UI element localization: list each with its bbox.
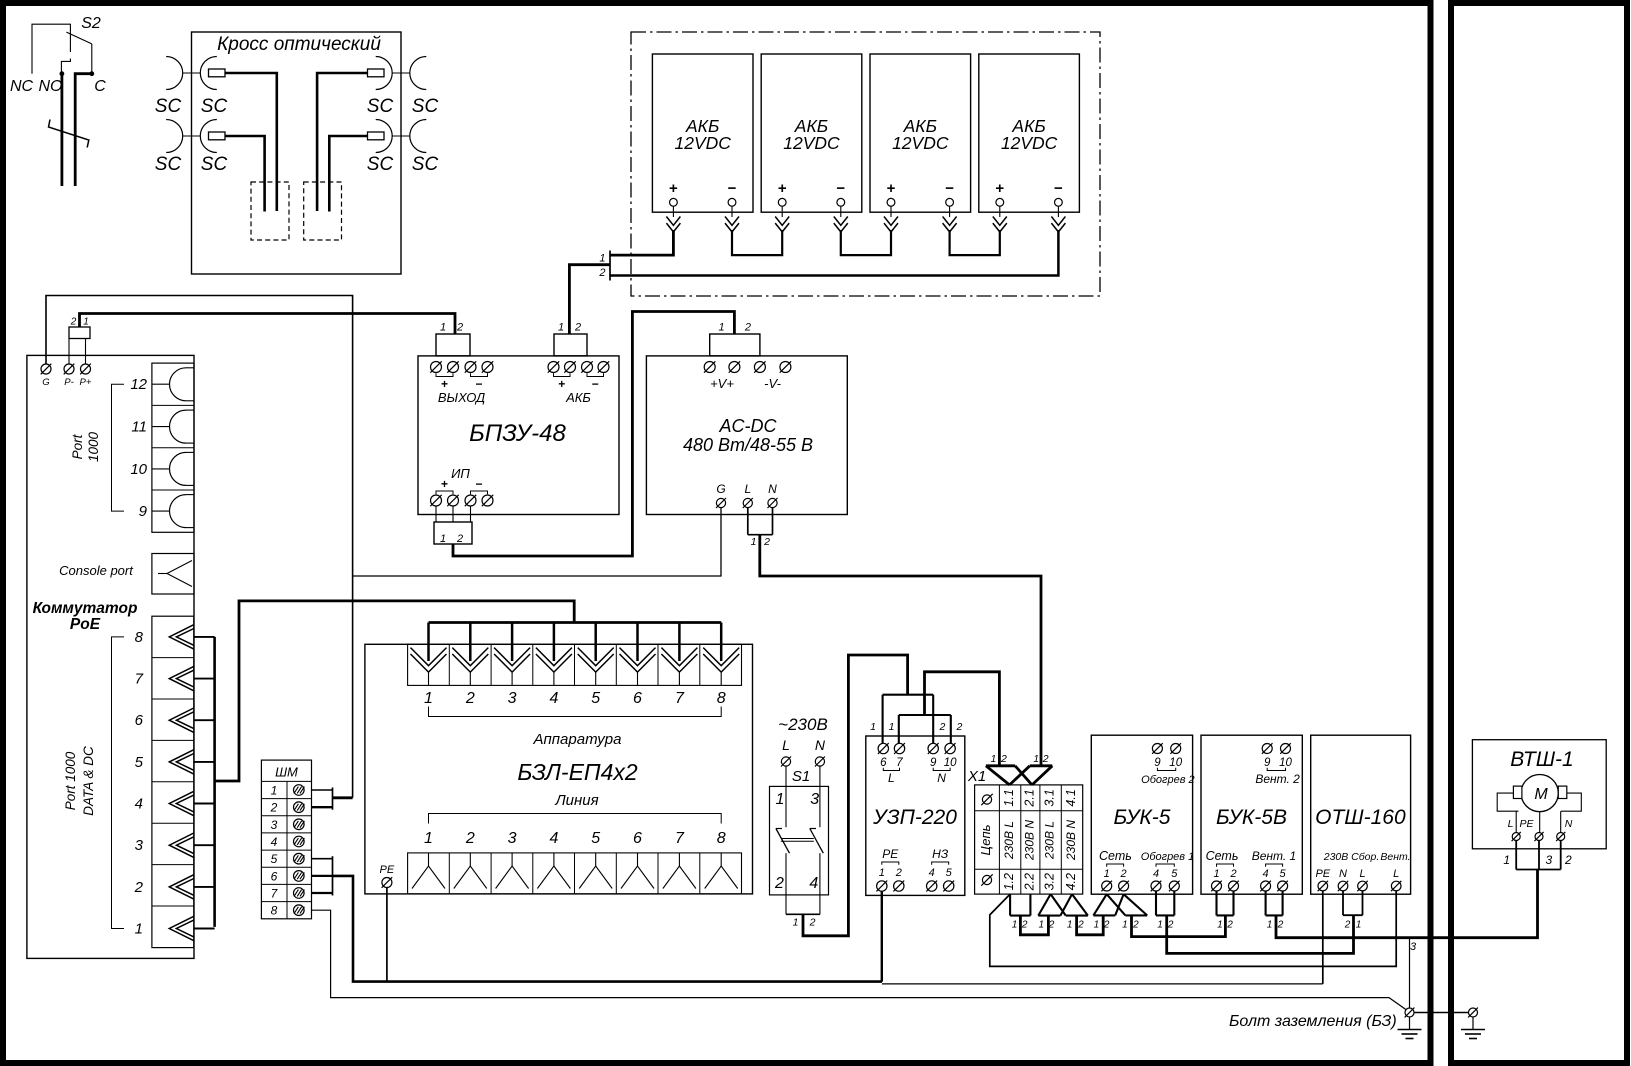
port 3 jack (data+DC)	[169, 833, 194, 857]
unit БУК-5 box	[1091, 735, 1192, 894]
cable БПЗУ ИП to AC-DC output	[453, 312, 734, 557]
svg-text:−: −	[945, 180, 954, 197]
port 2 jack (data+DC)	[169, 875, 194, 899]
svg-text:N: N	[815, 737, 826, 753]
svg-text:3: 3	[508, 690, 517, 707]
svg-text:230В L: 230В L	[1043, 821, 1057, 860]
port 5 jack (data+DC)	[169, 750, 194, 774]
connector PoE power (pins 2 1)	[69, 327, 90, 339]
series link GB3- to GB4+	[950, 230, 1000, 255]
wire N into S1	[819, 766, 821, 827]
БЗЛ Линия jack 7	[678, 853, 680, 866]
wire ШМ-2 to connector	[312, 806, 333, 808]
svg-text:480 Вт/48-55 В: 480 Вт/48-55 В	[683, 435, 813, 455]
svg-text:1: 1	[271, 784, 278, 798]
БЗЛ Линия jack 2	[469, 853, 471, 866]
svg-text:1: 1	[1033, 753, 1039, 765]
svg-text:2: 2	[763, 536, 770, 548]
БЗЛ Аппаратура jack 7	[661, 648, 697, 666]
БПЗУ ИП terminals	[431, 495, 442, 506]
svg-text:3: 3	[271, 818, 278, 832]
svg-text:1: 1	[424, 690, 433, 707]
switch S2 contact outline	[32, 24, 70, 73]
svg-text:Сеть: Сеть	[1206, 849, 1239, 863]
svg-text:БУК-5: БУК-5	[1114, 806, 1171, 829]
svg-text:G: G	[716, 482, 725, 496]
svg-text:2: 2	[774, 875, 784, 892]
svg-text:8: 8	[271, 904, 278, 918]
svg-text:NO: NO	[39, 78, 63, 95]
БЗЛ bottom strip (Линия)	[408, 853, 742, 894]
port 10 jack	[170, 452, 186, 485]
svg-text:Кросс оптический: Кросс оптический	[217, 34, 381, 55]
wire X1 1.2 to ОТШ Вент L	[990, 889, 1396, 967]
svg-text:9: 9	[139, 503, 148, 520]
svg-text:1: 1	[1104, 868, 1110, 880]
svg-text:SC: SC	[412, 154, 439, 175]
svg-text:L: L	[744, 482, 751, 496]
svg-text:−: −	[836, 180, 845, 197]
SC adapter coupling line	[392, 72, 410, 74]
svg-text:2: 2	[1042, 753, 1049, 765]
cable БУК-5 Сеть to БУК-5В Сеть	[1132, 915, 1226, 936]
БУК-5 terminals 9 10 (Обогрев 2)	[1152, 744, 1162, 754]
БЗЛ Аппаратура jack 6	[620, 648, 656, 666]
svg-text:Port: Port	[70, 433, 85, 459]
УЗП input fan (pins 1-2 from S1)	[883, 694, 934, 696]
svg-text:2: 2	[1564, 853, 1572, 867]
battery bank enclosure (dash-dot)	[631, 32, 1100, 296]
series link GB2- to GB3+	[841, 230, 891, 255]
svg-text:SC: SC	[201, 154, 228, 175]
svg-text:Вент.: Вент.	[1380, 851, 1410, 863]
svg-text:1: 1	[1012, 920, 1018, 931]
connector ВТШ-1 (pins 1 3 2)	[1515, 841, 1517, 870]
svg-text:2: 2	[744, 322, 751, 334]
unit ВТШ-1 box	[1472, 740, 1606, 849]
svg-text:+: +	[441, 377, 448, 391]
bonding link bolt to panel earth	[1414, 1012, 1469, 1014]
cable AC-DC mains input from X1	[760, 535, 1041, 766]
svg-text:6: 6	[271, 869, 278, 883]
svg-text:Линия: Линия	[554, 792, 598, 809]
bracket ports 1-8	[112, 637, 125, 929]
svg-text:1: 1	[135, 921, 143, 938]
PoE terminals G P- P+	[41, 364, 51, 374]
cable S1 to УЗП-220	[803, 655, 908, 936]
svg-text:X1: X1	[967, 768, 986, 785]
svg-text:4: 4	[549, 690, 558, 707]
wire L into S1	[785, 766, 787, 827]
svg-text:1: 1	[1039, 920, 1045, 931]
svg-text:12: 12	[130, 376, 147, 393]
fiber from SC row1-right to splice box 2	[317, 73, 367, 211]
svg-text:7: 7	[896, 757, 903, 769]
svg-text:10: 10	[1169, 757, 1182, 769]
svg-text:4: 4	[1153, 868, 1159, 880]
svg-text:~230В: ~230В	[778, 715, 828, 734]
svg-text:1: 1	[1157, 920, 1163, 931]
svg-text:6: 6	[633, 830, 642, 847]
svg-text:−: −	[592, 377, 599, 391]
SC adapter inner arc	[200, 57, 216, 90]
svg-text:12VDC: 12VDC	[892, 133, 949, 153]
connector X1 1.2/2.2 (pins 1 2)	[1009, 894, 1011, 916]
svg-text:DATA & DC: DATA & DC	[81, 746, 96, 816]
right panel frame	[1451, 3, 1627, 1063]
svg-text:1: 1	[1356, 920, 1362, 931]
svg-text:3.1: 3.1	[1043, 789, 1057, 806]
switch S2 blade	[66, 32, 91, 44]
svg-text:3.2: 3.2	[1043, 873, 1057, 890]
svg-text:+: +	[887, 180, 896, 197]
wire ШМ-6 to PE bar	[312, 875, 333, 877]
svg-text:1: 1	[776, 791, 785, 808]
SC adapter inner arc	[376, 120, 393, 153]
PoE port collector wire	[213, 637, 216, 927]
wire ШМ-1 to connector	[312, 789, 333, 791]
БЗЛ Аппаратура jack 2	[452, 648, 488, 666]
wire PoE G to ground net	[46, 296, 353, 798]
panel earth terminal	[1469, 1008, 1478, 1017]
wire ШМ-7 to PE bar	[312, 892, 333, 894]
svg-text:S1: S1	[792, 768, 810, 785]
Console port box	[152, 554, 194, 595]
svg-text:4.1: 4.1	[1064, 789, 1078, 806]
connector БУК-5 Обогрев1 (pins 1 2)	[1155, 891, 1157, 915]
optical cross box (Кросс оптический)	[192, 32, 402, 274]
svg-text:1: 1	[870, 721, 876, 733]
svg-text:1: 1	[793, 917, 799, 929]
connector S1 output (pins 1 2)	[786, 913, 820, 915]
PE bus from ШМ	[333, 876, 883, 982]
svg-text:2: 2	[1229, 868, 1236, 880]
svg-text:БЗЛ-ЕП4х2: БЗЛ-ЕП4х2	[517, 759, 638, 785]
svg-text:AC-DC: AC-DC	[719, 416, 778, 436]
svg-text:1: 1	[990, 753, 996, 765]
svg-text:P-: P-	[64, 377, 74, 388]
svg-text:1.1: 1.1	[1002, 789, 1016, 806]
connector ОТШ 230В Сбор (pins 2 1)	[1342, 891, 1344, 915]
svg-text:P+: P+	[80, 377, 92, 388]
svg-text:9: 9	[1264, 757, 1271, 769]
svg-text:1: 1	[879, 867, 885, 879]
svg-text:УЗП-220: УЗП-220	[872, 806, 957, 829]
port 7 jack (data+DC)	[169, 666, 194, 690]
cable УЗП to X1 (230V L)	[925, 672, 1000, 766]
wire ШМ-8 to earth bolt	[312, 910, 1407, 1010]
svg-text:1: 1	[83, 317, 89, 328]
svg-text:3: 3	[135, 837, 144, 854]
PE bus thin continuation to ОТШ	[882, 983, 1323, 985]
svg-text:4: 4	[549, 830, 558, 847]
svg-text:2: 2	[134, 879, 144, 896]
ВТШ-1 fan motor M	[1521, 775, 1558, 812]
breaker S1 box	[770, 786, 829, 895]
svg-text:7: 7	[675, 830, 685, 847]
unit БПЗУ-48 box	[418, 356, 619, 515]
svg-text:8: 8	[717, 830, 726, 847]
svg-text:2: 2	[1103, 920, 1110, 931]
svg-text:−: −	[728, 180, 737, 197]
battery GB1 (АКБ 12VDC)	[652, 54, 753, 212]
svg-text:SC: SC	[367, 96, 394, 117]
БЗЛ Аппаратура jack 3	[494, 648, 530, 666]
svg-text:Обогрев 1: Обогрев 1	[1141, 851, 1194, 863]
svg-text:БПЗУ-48: БПЗУ-48	[469, 420, 566, 447]
wire AC-DC G to ground net	[353, 508, 721, 576]
svg-text:2: 2	[456, 322, 463, 334]
wire БЗЛ PE to PE bus	[386, 888, 388, 982]
svg-text:2: 2	[1277, 920, 1284, 931]
splice cassette 2 (dashed)	[304, 182, 342, 240]
svg-text:ВТШ-1: ВТШ-1	[1510, 748, 1573, 771]
БПЗУ ВЫХОД terminals	[431, 362, 442, 373]
svg-text:C: C	[94, 78, 106, 95]
svg-text:Коммутатор: Коммутатор	[33, 600, 138, 617]
bracket Аппаратура	[429, 707, 722, 717]
svg-text:N: N	[937, 771, 946, 785]
PoE uplink ports 12-9 strip	[152, 363, 194, 532]
svg-text:5: 5	[271, 852, 278, 866]
svg-text:G: G	[42, 377, 49, 388]
svg-text:Вент. 2: Вент. 2	[1255, 772, 1300, 786]
svg-text:1: 1	[1503, 853, 1510, 867]
svg-text:1: 1	[424, 830, 433, 847]
SC adapter coupling line	[183, 135, 201, 137]
svg-text:Цепь: Цепь	[978, 824, 993, 855]
connector AC-DC DC-output (pins 1 2)	[710, 334, 760, 356]
wire ШМ-5 to PE bar	[312, 858, 333, 860]
svg-text:1: 1	[889, 721, 895, 733]
svg-text:8: 8	[135, 629, 144, 646]
wire battery positive (pin 1) to connector	[610, 230, 673, 255]
splice cassette 1 (dashed)	[251, 182, 289, 240]
svg-text:2: 2	[1077, 920, 1084, 931]
svg-text:2: 2	[270, 801, 278, 815]
УЗП output fan (pins 1-2 to X1)	[899, 714, 951, 716]
port 4 jack (data+DC)	[169, 791, 194, 815]
svg-text:4: 4	[271, 835, 278, 849]
connector БУК-5В Сеть (pins 1 2)	[1215, 891, 1217, 915]
connector ИП (pins 1 2)	[434, 522, 472, 544]
БПЗУ АКБ terminals	[548, 362, 559, 373]
svg-text:1000: 1000	[86, 431, 101, 462]
svg-text:1: 1	[599, 253, 605, 265]
bracket Линия	[429, 814, 722, 824]
БЗЛ Линия jack 1	[428, 853, 430, 866]
svg-text:3: 3	[1546, 853, 1553, 867]
cable БПЗУ ВЫХОД to PoE switch power	[80, 314, 456, 335]
БЗЛ top connector strip (Аппаратура)	[408, 644, 742, 685]
БЗЛ Линия jack 4	[553, 853, 555, 866]
battery GB4 (АКБ 12VDC)	[979, 54, 1080, 212]
svg-text:4: 4	[135, 796, 143, 813]
SC ferrule	[209, 69, 226, 77]
breaker S1 pole 2 blade	[810, 828, 816, 830]
svg-text:SC: SC	[367, 154, 394, 175]
svg-text:8: 8	[717, 690, 726, 707]
svg-text:НЗ: НЗ	[932, 847, 949, 861]
SC adapter coupling line	[183, 72, 201, 74]
svg-text:1: 1	[719, 322, 725, 334]
SC adapter outer arc	[166, 120, 183, 153]
svg-text:АКБ: АКБ	[565, 390, 591, 405]
svg-text:5: 5	[591, 690, 600, 707]
svg-text:9: 9	[930, 757, 937, 769]
port 11 jack	[170, 410, 186, 443]
SC adapter outer arc	[410, 120, 427, 153]
unit ОТШ-160 box	[1311, 735, 1411, 894]
svg-text:2.2: 2.2	[1022, 873, 1036, 891]
БУК-5В terminals 9 10 (Вент. 2)	[1262, 744, 1272, 754]
node C of S2	[89, 71, 94, 76]
unit БУК-5В box	[1201, 735, 1302, 894]
svg-text:5: 5	[591, 830, 600, 847]
svg-text:6: 6	[633, 690, 642, 707]
svg-text:NC: NC	[10, 78, 34, 95]
БЗЛ Аппаратура jack 5	[578, 648, 614, 666]
svg-text:1: 1	[1122, 920, 1128, 931]
svg-text:+V+: +V+	[710, 376, 734, 391]
svg-text:-V-: -V-	[764, 376, 782, 391]
cable ШМ 1-2 to ground net	[333, 796, 353, 799]
svg-text:1: 1	[440, 322, 446, 334]
svg-text:10: 10	[944, 757, 957, 769]
AC-DC +V+ / -V- terminals	[704, 362, 715, 373]
svg-text:12VDC: 12VDC	[1001, 133, 1058, 153]
svg-text:ОТШ-160: ОТШ-160	[1315, 806, 1406, 829]
svg-text:Аппаратура: Аппаратура	[533, 731, 622, 748]
svg-text:2: 2	[598, 267, 605, 279]
svg-text:4: 4	[929, 867, 935, 879]
fiber from SC row2-right to splice box 2	[329, 136, 367, 212]
SC adapter coupling line	[392, 135, 410, 137]
cable БУК-5В Вент.1 to ВТШ-1	[1276, 870, 1538, 938]
svg-text:2: 2	[465, 690, 475, 707]
svg-text:L: L	[782, 737, 790, 753]
svg-text:+: +	[441, 477, 448, 491]
svg-text:Console port: Console port	[59, 563, 134, 578]
cable X1 1.2/2.2 to X1 3.2 fan	[1020, 916, 1048, 935]
cable X1 4.2 fan to БУК-5 Сеть fan	[1077, 915, 1104, 934]
svg-text:2: 2	[1226, 920, 1233, 931]
fan X1 3.2/4.2 crossover	[1038, 915, 1060, 917]
svg-text:2: 2	[70, 317, 77, 328]
SC adapter inner arc	[200, 120, 216, 153]
wire ОТШ PE to PE bus	[1322, 891, 1324, 984]
svg-text:5: 5	[1171, 868, 1178, 880]
svg-text:3: 3	[810, 791, 819, 808]
svg-text:10: 10	[1279, 757, 1292, 769]
fiber from SC row1-left to splice box 1	[225, 73, 277, 211]
svg-text:−: −	[475, 477, 482, 491]
svg-text:1: 1	[1217, 920, 1223, 931]
БЗЛ Линия jack 5	[595, 853, 597, 866]
svg-text:N: N	[768, 482, 777, 496]
svg-text:2.1: 2.1	[1022, 789, 1036, 807]
SC ferrule	[209, 132, 226, 140]
wire from S2 NO down	[61, 74, 64, 186]
svg-text:230В L: 230В L	[1002, 821, 1016, 860]
svg-text:1: 1	[558, 322, 564, 334]
svg-text:L: L	[1508, 818, 1514, 830]
svg-text:230В N: 230В N	[1022, 820, 1036, 861]
port 1 jack (data+DC)	[169, 916, 194, 940]
wire from S2 C down	[75, 74, 92, 186]
svg-text:2: 2	[456, 533, 463, 545]
port 9 jack	[170, 495, 186, 528]
svg-text:2: 2	[939, 721, 946, 733]
svg-text:PoE: PoE	[70, 616, 101, 633]
ШМ 1-2 cable connector bar	[332, 788, 334, 810]
earth bolt (Болт заземления)	[1405, 1008, 1414, 1017]
SC adapter inner arc	[376, 57, 393, 90]
svg-text:2: 2	[895, 867, 902, 879]
svg-text:ВЫХОД: ВЫХОД	[438, 390, 485, 405]
fan БУК-5 Сеть crossover	[1093, 914, 1115, 916]
svg-text:−: −	[475, 377, 482, 391]
breaker S1 mechanical link	[781, 838, 814, 840]
SC ferrule	[368, 69, 385, 77]
svg-text:+: +	[778, 180, 787, 197]
svg-text:2: 2	[1120, 868, 1127, 880]
svg-text:PE: PE	[882, 847, 899, 861]
svg-text:230В Сбор.: 230В Сбор.	[1323, 851, 1380, 863]
svg-text:11: 11	[131, 419, 147, 436]
svg-text:5: 5	[946, 867, 953, 879]
svg-text:N: N	[1339, 868, 1347, 880]
svg-text:SC: SC	[155, 96, 182, 117]
SC adapter outer arc	[410, 57, 427, 90]
cable PoE ports to БЗЛ bus	[215, 601, 575, 781]
ШМ 5-7 PE bar	[332, 856, 334, 895]
svg-text:2: 2	[1000, 753, 1007, 765]
svg-text:2: 2	[956, 721, 963, 733]
svg-text:9: 9	[1154, 757, 1161, 769]
PoE ports 8-1 strip	[152, 616, 194, 947]
svg-text:1: 1	[1094, 920, 1100, 931]
svg-text:N: N	[1565, 818, 1573, 830]
svg-text:12VDC: 12VDC	[674, 133, 731, 153]
svg-text:6: 6	[135, 712, 144, 729]
svg-text:1: 1	[1267, 920, 1273, 931]
svg-text:230В N: 230В N	[1064, 820, 1078, 861]
svg-text:2: 2	[809, 917, 816, 929]
БЗЛ Аппаратура jack 4	[536, 648, 572, 666]
svg-text:ШМ: ШМ	[275, 765, 298, 780]
svg-text:1: 1	[1213, 868, 1219, 880]
svg-text:2: 2	[1132, 920, 1139, 931]
svg-text:1.2: 1.2	[1002, 873, 1016, 890]
svg-text:7: 7	[675, 690, 685, 707]
node NO of S2	[60, 71, 65, 76]
connector ВЫХОД (pins 1 2)	[436, 334, 470, 356]
svg-text:Болт заземления (БЗ): Болт заземления (БЗ)	[1229, 1013, 1397, 1030]
svg-text:2: 2	[465, 830, 475, 847]
БЗЛ Аппаратура jack 8	[703, 648, 739, 666]
БЗЛ apparatus bus with drops	[429, 621, 722, 624]
svg-text:L: L	[1359, 868, 1365, 880]
unit БЗЛ-ЕП4х2 box	[365, 644, 753, 894]
svg-text:5: 5	[135, 754, 144, 771]
БЗЛ Линия jack 3	[511, 853, 513, 866]
bracket ports 12-9	[112, 384, 125, 511]
svg-text:PE: PE	[1519, 818, 1534, 830]
svg-text:PE: PE	[380, 864, 395, 876]
connector БУК-5В Вент.1 (pins 1 2)	[1265, 891, 1267, 915]
БЗЛ Аппаратура jack 1	[411, 648, 447, 666]
